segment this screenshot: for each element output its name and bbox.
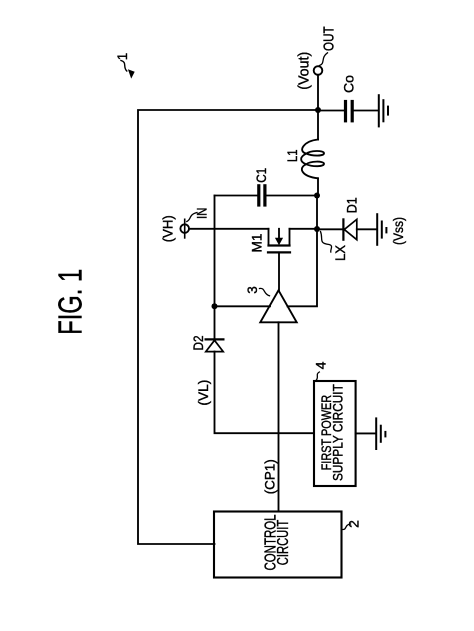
svg-text:D1: D1 <box>345 197 360 213</box>
capacitor C1 <box>257 186 260 205</box>
ground (Co) <box>379 95 388 126</box>
box control circuit 2 <box>214 512 342 578</box>
svg-text:3: 3 <box>245 286 260 294</box>
squiggle IN <box>187 213 197 222</box>
wire LX vertical <box>316 196 318 230</box>
squiggle 3 <box>260 288 270 295</box>
capacitor Co <box>344 102 347 121</box>
svg-text:(Vout): (Vout) <box>296 52 313 90</box>
node OUT junction <box>315 107 321 113</box>
ground (FPS) <box>376 418 385 449</box>
diode D1 <box>343 219 356 239</box>
svg-text:SUPPLY CIRCUIT: SUPPLY CIRCUIT <box>331 384 346 481</box>
svg-text:2: 2 <box>346 520 362 528</box>
op-amp 3 <box>260 290 296 322</box>
diode D2 <box>206 339 224 351</box>
wire C1 <box>215 195 258 197</box>
svg-text:M1: M1 <box>250 234 265 253</box>
terminal IN (VH) <box>180 224 189 233</box>
ground (Vss) <box>377 214 386 245</box>
wire VL down and over to FPS <box>215 352 315 434</box>
terminal OUT <box>314 66 323 75</box>
svg-text:CIRCUIT: CIRCUIT <box>275 519 292 565</box>
svg-text:FIG. 1: FIG. 1 <box>52 269 89 335</box>
svg-text:1: 1 <box>115 53 130 61</box>
wire feedback loop from OUT node to control circuit <box>138 110 318 544</box>
svg-text:Co: Co <box>341 75 357 93</box>
squiggle LX <box>321 232 332 253</box>
wire LX to D1 <box>317 228 343 230</box>
wire FPS to ground <box>356 432 376 434</box>
node C1/L1 junction <box>314 193 320 199</box>
svg-text:C1: C1 <box>254 168 269 183</box>
squiggle 4 <box>316 372 320 381</box>
svg-text:LX: LX <box>333 245 348 261</box>
inductor L1 <box>301 140 324 179</box>
box first power supply circuit 4 <box>314 381 356 486</box>
svg-text:IN: IN <box>195 208 210 220</box>
wire LX down to amp <box>288 229 318 306</box>
svg-text:(Vss): (Vss) <box>391 217 406 245</box>
wire L1 to node <box>317 178 319 195</box>
wire VH down (C1 corner to FPS corner) <box>214 196 216 340</box>
wire amp left supply <box>215 305 271 307</box>
wire Co branch <box>318 110 344 112</box>
label 1 arrow <box>121 61 135 79</box>
wire amp output to control <box>278 322 280 511</box>
svg-text:L1: L1 <box>285 150 300 163</box>
squiggle 2 <box>343 524 351 530</box>
node LX <box>314 226 320 232</box>
svg-text:4: 4 <box>313 361 329 369</box>
squiggle OUT <box>320 53 328 66</box>
svg-text:(VL): (VL) <box>196 380 211 406</box>
wire OUT drop <box>317 75 319 140</box>
transistor M1 <box>268 229 290 291</box>
node amp-left <box>212 303 218 309</box>
svg-text:D2: D2 <box>191 336 206 351</box>
svg-text:OUT: OUT <box>321 26 338 51</box>
svg-text:(VH): (VH) <box>161 215 176 242</box>
wire IN to M1 <box>189 228 269 230</box>
svg-text:(CP1): (CP1) <box>263 459 278 494</box>
wire M1 to LX <box>290 228 318 230</box>
